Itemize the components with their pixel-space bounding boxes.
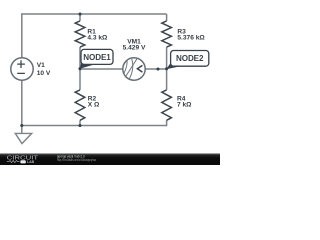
CircuitLab logo zigzag: [7, 160, 20, 162]
node NODE1 flag: [80, 49, 113, 68]
junction dot bottom left (ground tee): [20, 124, 23, 127]
wire NODE1 to VM1 left lead: [80, 68, 123, 70]
wire left vertical upper: [21, 13, 23, 58]
junction dot NODE2: [165, 67, 168, 70]
CircuitLab logo LAB tag: [20, 160, 25, 163]
junction dot meter wire: [156, 67, 159, 70]
wire top horizontal: [22, 13, 167, 15]
wire bottom horizontal: [22, 125, 167, 127]
resistor R2: [75, 90, 85, 120]
wire left vertical lower: [21, 80, 23, 133]
resistor R1: [75, 21, 85, 47]
wire R2 top lead: [79, 69, 81, 90]
wire R3 top lead: [166, 14, 168, 21]
voltage source V1: [11, 58, 33, 80]
junction dot top (R1 / top wire): [78, 12, 81, 15]
svg-text:10 V: 10 V: [37, 70, 51, 77]
resistor R4: [162, 90, 172, 120]
svg-text:5.376 kΩ: 5.376 kΩ: [177, 34, 205, 41]
ground: [15, 133, 31, 143]
junction dot NODE1: [78, 67, 81, 70]
resistor R3: [162, 21, 172, 47]
svg-text:V1: V1: [37, 62, 45, 69]
wire VM1 right lead to right column: [145, 68, 167, 70]
wire R3 bottom lead: [166, 47, 168, 69]
wire R4 top lead: [166, 69, 168, 90]
svg-text:4.3 kΩ: 4.3 kΩ: [87, 34, 108, 41]
wire R1 bottom lead: [79, 47, 81, 69]
wire R1 top lead: [79, 14, 81, 21]
svg-text:LAB: LAB: [27, 160, 35, 164]
junction dot bottom (R2 / bottom wire): [78, 124, 81, 127]
svg-text:NODE2: NODE2: [176, 54, 204, 63]
svg-text:http://circuitlab.com/c/f3dnaq: http://circuitlab.com/c/f3dnaqsnyfwa: [57, 158, 96, 162]
svg-text:NODE1: NODE1: [83, 53, 111, 62]
wire R4 bottom lead: [166, 120, 168, 126]
wire R2 bottom lead: [79, 120, 81, 125]
svg-text:5.429 V: 5.429 V: [123, 45, 146, 52]
svg-text:X Ω: X Ω: [88, 102, 100, 109]
svg-text:7 kΩ: 7 kΩ: [177, 102, 192, 109]
voltmeter VM1: [123, 58, 145, 80]
node NODE2 flag: [166, 51, 209, 70]
